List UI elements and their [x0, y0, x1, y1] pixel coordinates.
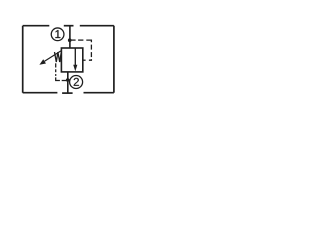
envelope left edge	[22, 26, 24, 93]
flow path arrowhead	[73, 65, 77, 72]
port circle 2	[70, 76, 83, 89]
adjustment arrow shaft	[45, 51, 61, 61]
envelope top edge right segment	[80, 25, 114, 27]
wire port 1 line	[69, 26, 71, 49]
wire port 2 line	[67, 72, 69, 93]
drain dashed line (spring chamber to port 2 line)	[56, 63, 66, 80]
pilot dashed line (port1 to box right side)	[70, 40, 91, 60]
envelope bottom edge right segment	[84, 92, 114, 94]
flow path line inside box	[74, 48, 76, 65]
port 1 marker cap	[64, 25, 74, 27]
port circle 1	[51, 28, 64, 41]
port 2 marker cap	[62, 92, 73, 94]
spring	[55, 52, 62, 62]
junction dot B on port 2 line	[66, 78, 70, 82]
port label 2	[74, 78, 79, 86]
junction dot A on port 1 line	[68, 38, 72, 42]
envelope top edge left segment	[23, 25, 50, 27]
port label 1	[55, 30, 60, 38]
envelope bottom edge left segment	[23, 92, 58, 94]
envelope right edge	[113, 26, 115, 93]
adjustment arrowhead	[39, 59, 46, 65]
valve body box	[61, 48, 82, 72]
